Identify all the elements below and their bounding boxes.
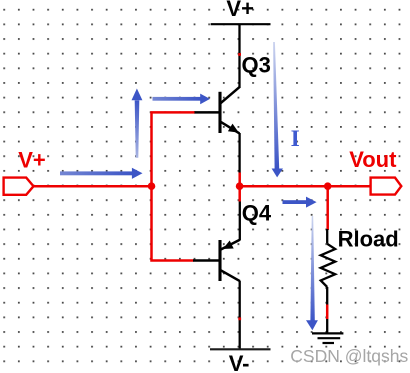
svg-text:I: I [291, 126, 300, 152]
node A junction [148, 182, 156, 190]
wire: V+ rail to Q3 collector [238, 24, 241, 88]
output node junction [236, 182, 244, 190]
svg-text:Vout: Vout [349, 147, 397, 172]
current arrow I: Q3 collector current [272, 42, 283, 177]
transistor Q3 (NPN) [194, 87, 240, 134]
input port V+ [4, 178, 34, 195]
wire: node B down to Rload (red) [326, 186, 329, 230]
svg-text:V+: V+ [226, 0, 254, 21]
svg-text:Q4: Q4 [242, 201, 272, 226]
wire: node A to Q4 base [152, 186, 194, 260]
wire: Q3 emitter to output node [238, 133, 240, 173]
node B junction (Rload tap) [324, 182, 332, 190]
power rail V+ [211, 23, 271, 25]
wire: output node to Q4 emitter (red stub) [238, 173, 241, 202]
svg-text:V+: V+ [18, 148, 46, 173]
current arrow: load current to ground [306, 216, 318, 330]
current arrow: output to load [283, 197, 317, 208]
output port Vout [371, 178, 402, 195]
wire: input port to node A [34, 185, 152, 188]
svg-text:Rload: Rload [338, 226, 399, 251]
current arrow: into Q3 base [153, 94, 211, 105]
wire: Q4 collector to V- rail [238, 281, 241, 349]
current arrow: input [60, 168, 143, 179]
wire: output node to Vout port [240, 185, 371, 188]
transistor Q4 (PNP) [193, 240, 240, 282]
wire: Rload to ground (red stub) [326, 305, 329, 320]
current arrow: up along base feed [132, 89, 143, 158]
ground [312, 333, 343, 343]
wire: node to Q4 emitter (black) [239, 202, 241, 241]
wire: to ground (black) [326, 319, 328, 333]
resistor Rload [321, 229, 336, 305]
svg-text:V-: V- [229, 351, 250, 373]
wire: node A to Q3 base [152, 112, 195, 186]
svg-text:Q3: Q3 [242, 53, 271, 78]
svg-text:CSDN @ltqshs: CSDN @ltqshs [290, 346, 408, 366]
power rail V- [210, 348, 271, 350]
